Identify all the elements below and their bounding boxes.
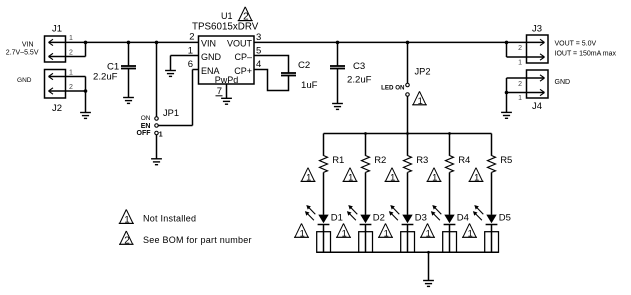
svg-text:CP–: CP– [234, 52, 252, 62]
svg-text:J2: J2 [52, 103, 62, 114]
svg-text:1: 1 [69, 35, 73, 42]
svg-text:R4: R4 [458, 155, 470, 166]
svg-text:1: 1 [426, 228, 431, 238]
svg-text:2: 2 [518, 81, 522, 88]
svg-text:1: 1 [124, 214, 129, 225]
svg-text:1: 1 [342, 228, 347, 238]
svg-text:1: 1 [468, 228, 473, 238]
svg-text:2: 2 [69, 50, 73, 57]
svg-text:1: 1 [474, 172, 479, 182]
svg-text:J3: J3 [532, 24, 542, 35]
svg-text:1: 1 [518, 95, 522, 102]
svg-text:PwPd: PwPd [215, 75, 239, 85]
svg-text:Not Installed: Not Installed [143, 214, 196, 224]
svg-text:R5: R5 [500, 155, 512, 166]
svg-text:U1: U1 [221, 11, 233, 21]
svg-text:D4: D4 [457, 212, 469, 223]
svg-text:GND: GND [17, 77, 32, 84]
svg-text:See BOM for part number: See BOM for part number [143, 235, 252, 245]
svg-text:1: 1 [300, 228, 305, 238]
svg-text:1: 1 [348, 172, 353, 182]
svg-text:JP2: JP2 [415, 67, 431, 77]
svg-text:C3: C3 [353, 61, 365, 72]
svg-text:1: 1 [418, 96, 423, 106]
svg-text:R2: R2 [374, 155, 386, 166]
svg-text:IOUT = 150mA max: IOUT = 150mA max [555, 51, 617, 58]
svg-text:OFF: OFF [137, 130, 152, 137]
svg-text:3: 3 [256, 32, 261, 43]
svg-text:GND: GND [201, 52, 222, 62]
svg-text:R3: R3 [416, 155, 428, 166]
svg-text:2: 2 [518, 45, 522, 52]
svg-text:C2: C2 [298, 60, 310, 71]
svg-text:1uF: 1uF [301, 80, 318, 91]
svg-text:1: 1 [306, 172, 311, 182]
svg-text:2.2uF: 2.2uF [347, 75, 372, 86]
svg-text:2: 2 [189, 32, 194, 43]
svg-text:VIN: VIN [201, 38, 216, 48]
svg-text:TPS6015xDRV: TPS6015xDRV [192, 22, 259, 33]
svg-text:D3: D3 [415, 212, 427, 223]
svg-text:J1: J1 [52, 24, 62, 35]
svg-text:1: 1 [518, 60, 522, 67]
svg-text:4: 4 [256, 59, 261, 70]
svg-text:6: 6 [188, 59, 193, 70]
svg-text:LED ON: LED ON [381, 85, 405, 92]
svg-text:VIN: VIN [22, 42, 34, 49]
svg-text:1: 1 [432, 172, 437, 182]
svg-text:2: 2 [69, 84, 73, 91]
svg-text:D1: D1 [331, 212, 343, 223]
svg-text:2.2uF: 2.2uF [93, 71, 118, 82]
svg-text:ON: ON [141, 115, 151, 122]
svg-text:D2: D2 [373, 212, 385, 223]
svg-text:D5: D5 [499, 212, 511, 223]
svg-text:EN: EN [141, 123, 151, 130]
svg-text:2.7V–5.5V: 2.7V–5.5V [6, 50, 39, 57]
svg-text:J4: J4 [532, 101, 542, 112]
svg-text:2: 2 [124, 235, 130, 246]
svg-text:1: 1 [384, 228, 389, 238]
svg-text:GND: GND [555, 79, 571, 86]
svg-text:1: 1 [69, 70, 73, 77]
svg-text:JP1: JP1 [163, 108, 179, 118]
svg-text:1: 1 [390, 172, 395, 182]
svg-text:VOUT = 5.0V: VOUT = 5.0V [555, 41, 597, 48]
svg-text:1: 1 [159, 132, 163, 139]
svg-text:VOUT: VOUT [227, 38, 253, 48]
svg-text:R1: R1 [332, 155, 344, 166]
